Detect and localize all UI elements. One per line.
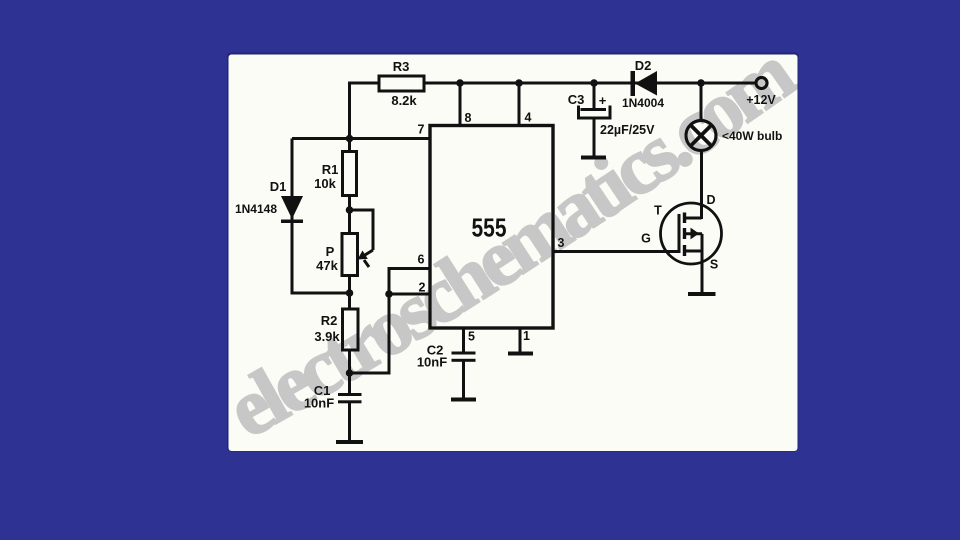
node dot C3 rail: [590, 79, 598, 87]
node dot bulb rail: [697, 79, 705, 87]
svg-text:7: 7: [418, 123, 425, 137]
svg-text:8: 8: [465, 111, 472, 125]
svg-text:8.2k: 8.2k: [391, 93, 417, 108]
capacitor C1: [304, 383, 362, 411]
terminal +12V: [746, 78, 776, 108]
wire R2 bottom: [348, 349, 351, 373]
wire D1 branch vertical: [292, 139, 350, 294]
wire top rail: [350, 83, 756, 140]
svg-text:S: S: [710, 258, 718, 272]
IC U1 555: [430, 126, 553, 329]
wire pin5 stub: [462, 328, 465, 353]
svg-text:+: +: [599, 93, 607, 108]
wire pin2: [389, 293, 430, 296]
node dot pot bottom: [346, 289, 354, 297]
panel: [227, 53, 799, 452]
svg-text:47k: 47k: [316, 258, 338, 273]
wire wiper arrow diagonal: [363, 250, 374, 257]
svg-text:D1: D1: [270, 179, 287, 194]
wire wiper tail: [364, 260, 369, 267]
svg-text:R1: R1: [322, 162, 339, 177]
wire pin4 stub: [518, 83, 521, 126]
resistor R1: [314, 152, 356, 196]
wire pin3 to gate: [553, 250, 679, 253]
svg-text:1N4148: 1N4148: [235, 202, 277, 216]
svg-text:1: 1: [523, 329, 530, 343]
diode D2: [622, 58, 664, 110]
wire drain: [700, 151, 703, 220]
wire pin1 stub: [519, 328, 522, 352]
node dot wiper junction: [346, 206, 354, 214]
svg-text:P: P: [326, 244, 335, 259]
ground C2: [451, 398, 476, 402]
potentiometer P: [316, 234, 368, 276]
node dot pin7 junction: [346, 135, 354, 143]
svg-text:D2: D2: [635, 58, 652, 73]
wire pin8 stub: [459, 83, 462, 126]
wire node B L-shape: [350, 294, 390, 373]
wire pin6: [389, 269, 430, 295]
wire pot wiper loop: [350, 210, 374, 250]
wire C2 bottom: [462, 361, 465, 398]
wire bulb top: [700, 83, 703, 121]
capacitor C2: [417, 343, 476, 370]
wire C1 bottom: [348, 402, 351, 441]
node dot pin2 junction: [385, 290, 393, 298]
ground C1: [336, 440, 363, 444]
ground C3: [581, 156, 606, 160]
transistor Q1 MOSFET: [641, 193, 721, 272]
svg-text:4: 4: [525, 111, 532, 125]
ground source: [688, 292, 716, 296]
node dot pin8 rail: [456, 79, 464, 87]
node dot pin4 rail: [515, 79, 523, 87]
node dot R2 bottom: [346, 369, 354, 377]
wire R1 top: [348, 139, 351, 153]
svg-text:D: D: [706, 193, 715, 207]
wire R1 bottom to pot: [348, 195, 351, 234]
svg-text:R3: R3: [393, 59, 410, 74]
svg-text:G: G: [641, 232, 651, 246]
wire pot bottom: [348, 275, 351, 309]
wire C3 top: [593, 83, 596, 109]
wire C1 top: [348, 373, 351, 394]
svg-text:C3: C3: [568, 92, 585, 107]
resistor R3: [379, 59, 424, 108]
svg-text:10k: 10k: [314, 176, 336, 191]
wire pin7 horizontal: [292, 137, 430, 140]
diode D1: [235, 179, 303, 223]
capacitor C3: [568, 92, 655, 137]
lamp bulb: [686, 121, 782, 151]
ground pin1: [508, 352, 533, 356]
wire source: [701, 251, 704, 293]
resistor R2: [314, 309, 358, 350]
svg-text:5: 5: [468, 330, 475, 344]
watermark: [214, 29, 810, 455]
wire C3 bottom: [593, 118, 596, 156]
